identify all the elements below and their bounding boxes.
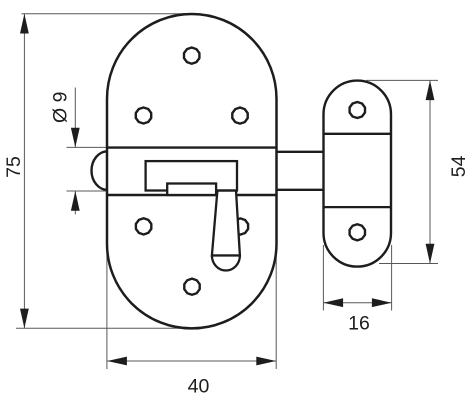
knob stem (tapered, widening downward): [212, 191, 240, 256]
knob tip chord line: [212, 254, 240, 256]
screw hole lower right (partly hidden by knob): [233, 218, 248, 234]
extension line right of 16: [391, 245, 393, 311]
arrowhead top of 75: [20, 14, 434, 366]
arrowhead bottom of 75: [20, 309, 29, 329]
extension line left of 16: [322, 245, 324, 311]
arrowhead left of 16: [323, 298, 343, 307]
screw hole top center: [136, 48, 248, 295]
dimension line 75: [23, 14, 25, 329]
keeper screw hole bottom: [350, 224, 365, 240]
extension line left of 40: [106, 246, 108, 369]
screw hole upper left: [136, 108, 151, 124]
knob base plate rectangle: [167, 184, 216, 196]
dimension line 54: [429, 80, 431, 263]
extension line right of 40: [275, 246, 277, 369]
extension line bottom of diameter 9: [67, 190, 108, 192]
dimension line lower segment diameter 9: [74, 191, 76, 214]
bolt guide channel top edge: [107, 146, 277, 148]
dimension text 75 (rotated): [3, 92, 469, 396]
screw hole upper right: [232, 108, 247, 124]
dimension extension line bottom of 75: [16, 327, 197, 329]
arrowhead top of 54: [426, 80, 435, 100]
knob rounded tip: [212, 256, 240, 271]
keeper screw hole top: [350, 102, 365, 118]
bolt bar bottom edge between body and keeper: [277, 189, 324, 191]
arrowhead top of diameter 9 (points down): [71, 128, 80, 148]
bolt bar top edge between body and keeper: [277, 151, 324, 153]
extension line top of diameter 9: [67, 146, 108, 148]
svg-text:54: 54: [448, 155, 469, 177]
screw hole bottom center: [184, 279, 199, 295]
slot window in guide: [146, 161, 237, 190]
arrowhead bottom of 54: [426, 244, 435, 264]
extension line top of 54: [366, 79, 438, 81]
arrowhead left of 40: [107, 357, 127, 366]
arrowhead right of 40: [256, 357, 276, 366]
arrowhead right of 16: [372, 298, 392, 307]
latch body plate (stadium outline): [107, 14, 277, 328]
dimension line upper segment diameter 9: [74, 88, 76, 148]
dimension line 16: [323, 302, 391, 304]
arrowhead bottom of diameter 9 (points up): [71, 191, 80, 211]
bolt rounded end cap protruding left: [92, 151, 108, 190]
screw hole lower left: [136, 218, 151, 234]
keeper lower divider line: [324, 206, 392, 208]
keeper / strike plate (stadium outline): [324, 81, 392, 267]
svg-text:16: 16: [348, 313, 370, 335]
svg-text:Ø 9: Ø 9: [50, 92, 72, 123]
keeper upper divider line: [324, 133, 392, 135]
extension line bottom of 54: [379, 263, 438, 265]
svg-text:40: 40: [188, 376, 210, 396]
bolt guide channel bottom edge: [107, 194, 277, 196]
svg-text:75: 75: [3, 156, 25, 178]
dimension line 40: [107, 360, 276, 362]
